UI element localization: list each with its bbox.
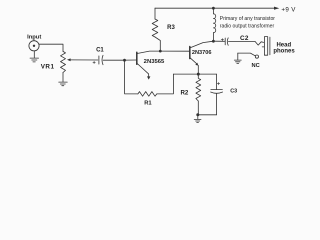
potentiometer VR1 <box>61 51 66 72</box>
svg-text:radio output transformer: radio output transformer <box>220 23 275 29</box>
capacitor C1 <box>99 55 103 64</box>
svg-text:R2: R2 <box>180 89 188 96</box>
Q1 emitter arrowhead <box>147 76 150 79</box>
wire to C2 <box>213 40 224 42</box>
svg-text:Primary of any transistor: Primary of any transistor <box>220 16 276 22</box>
ground (VR1) <box>59 73 68 86</box>
transistor Q2 base bar <box>189 47 191 59</box>
Q2 emitter lead down <box>197 65 199 73</box>
svg-text:phones: phones <box>273 49 295 55</box>
input jack center pin <box>33 45 35 47</box>
wire node A down to R1 <box>125 60 138 94</box>
C3 bottom lead <box>216 94 218 115</box>
+9V supply rail <box>155 7 275 9</box>
capacitor C2 <box>225 38 228 46</box>
capacitor C1 plus sign <box>93 61 95 63</box>
rail arrowhead <box>274 7 279 10</box>
input jack tick <box>33 39 35 40</box>
ground (R2/C3) <box>194 115 201 123</box>
svg-text:2N3706: 2N3706 <box>192 50 212 56</box>
wire wiper to C1 <box>70 59 98 61</box>
svg-text:R1: R1 <box>144 100 152 106</box>
capacitor C2 plus sign <box>221 39 223 41</box>
jack body <box>264 37 267 56</box>
collector junction dot <box>212 40 215 43</box>
wire C2 to jack <box>228 41 255 43</box>
svg-text:2N3565: 2N3565 <box>144 59 165 65</box>
capacitor C3 plus sign <box>217 82 219 84</box>
resistor R1 <box>138 92 157 97</box>
node B junction dot <box>159 50 162 53</box>
jack NC contact <box>238 53 256 56</box>
node C junction dot <box>197 73 200 76</box>
wire R1 right to emitter node <box>157 74 174 94</box>
emitter node horizontal wire <box>173 73 216 75</box>
transistor Q1 collector <box>137 51 160 53</box>
jack NC terminal circle <box>255 55 258 58</box>
svg-text:VR1: VR1 <box>41 64 55 71</box>
resistor R3 <box>152 19 158 37</box>
wire C1 to node A <box>103 59 124 61</box>
bottom junction dot <box>196 113 199 116</box>
svg-text:C2: C2 <box>240 35 249 42</box>
wire node B to Q2 base <box>160 50 189 52</box>
VR1 wiper arrow <box>67 58 71 61</box>
bottom ground wire <box>198 114 217 116</box>
ground (jack NC) <box>234 53 241 63</box>
node A junction dot <box>123 59 126 62</box>
wire jack to pot <box>39 44 63 51</box>
R2 bottom lead <box>197 101 199 115</box>
svg-text:C1: C1 <box>96 48 104 54</box>
svg-text:+9 V: +9 V <box>281 6 296 13</box>
svg-text:C3: C3 <box>230 89 237 95</box>
svg-text:R3: R3 <box>167 25 175 31</box>
resistor R2 <box>196 76 201 102</box>
transformer primary coil <box>213 14 215 33</box>
capacitor C3 top lead <box>216 74 218 89</box>
Q2 emitter arrowhead <box>195 63 198 66</box>
transformer primary bottom lead <box>212 33 214 42</box>
R3 lead to node B <box>155 37 160 51</box>
svg-text:NC: NC <box>251 63 259 69</box>
jack plug tip tick <box>262 46 264 48</box>
transistor Q1 base bar <box>136 52 138 64</box>
jack body right edge <box>269 37 271 55</box>
resistor R3 lead from rail <box>154 8 156 19</box>
ground (input jack) <box>30 51 39 62</box>
rail junction dot (transformer top) <box>212 7 215 10</box>
transistor Q2 collector <box>190 41 213 48</box>
jack tip contact <box>255 42 263 46</box>
transistor Q2 emitter <box>190 58 196 64</box>
input jack circle <box>29 41 39 51</box>
transistor Q1 emitter <box>137 64 149 77</box>
wire node A to Q1 base <box>125 59 137 61</box>
transformer primary top lead <box>212 8 214 14</box>
capacitor C3 <box>211 90 223 94</box>
